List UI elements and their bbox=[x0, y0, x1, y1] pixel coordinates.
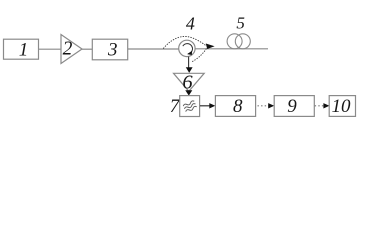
svg-text:8: 8 bbox=[233, 96, 243, 117]
box 9 bbox=[274, 96, 314, 118]
wire circulator to fiber end bbox=[195, 48, 268, 50]
box 1 bbox=[4, 39, 39, 60]
svg-text:3: 3 bbox=[107, 40, 118, 61]
arrow circulator to detector6 bbox=[188, 57, 190, 69]
photodetector 6 bbox=[174, 72, 205, 94]
svg-text:9: 9 bbox=[287, 96, 297, 117]
wire box3 to circulator bbox=[128, 48, 180, 50]
svg-text:2: 2 bbox=[63, 39, 73, 60]
box 10 bbox=[329, 96, 355, 118]
svg-text:4: 4 bbox=[186, 14, 195, 34]
box 8 bbox=[215, 96, 255, 118]
svg-text:5: 5 bbox=[236, 14, 245, 33]
box 3 bbox=[92, 39, 127, 60]
dotted arrow box9 to box10 bbox=[315, 105, 326, 107]
dotted path port1 to port2 bbox=[164, 36, 206, 48]
wire box1 to amplifier2 bbox=[39, 48, 62, 50]
dotted path port2 to port3 bbox=[191, 49, 207, 63]
wire amplifier2 to box3 bbox=[82, 48, 92, 50]
fiber coil 5 bbox=[227, 34, 250, 49]
amplifier 2 bbox=[61, 35, 82, 64]
arrowhead port2 bbox=[206, 44, 215, 50]
circulator U4 bbox=[179, 40, 195, 56]
dotted arrow box8 to box9 bbox=[258, 105, 271, 107]
box 7 with signal icon bbox=[180, 96, 200, 117]
arrow box7 to box8 bbox=[200, 105, 211, 107]
svg-text:1: 1 bbox=[19, 40, 29, 61]
svg-text:10: 10 bbox=[332, 96, 352, 117]
arrow detector6 to box7 bbox=[185, 90, 192, 95]
